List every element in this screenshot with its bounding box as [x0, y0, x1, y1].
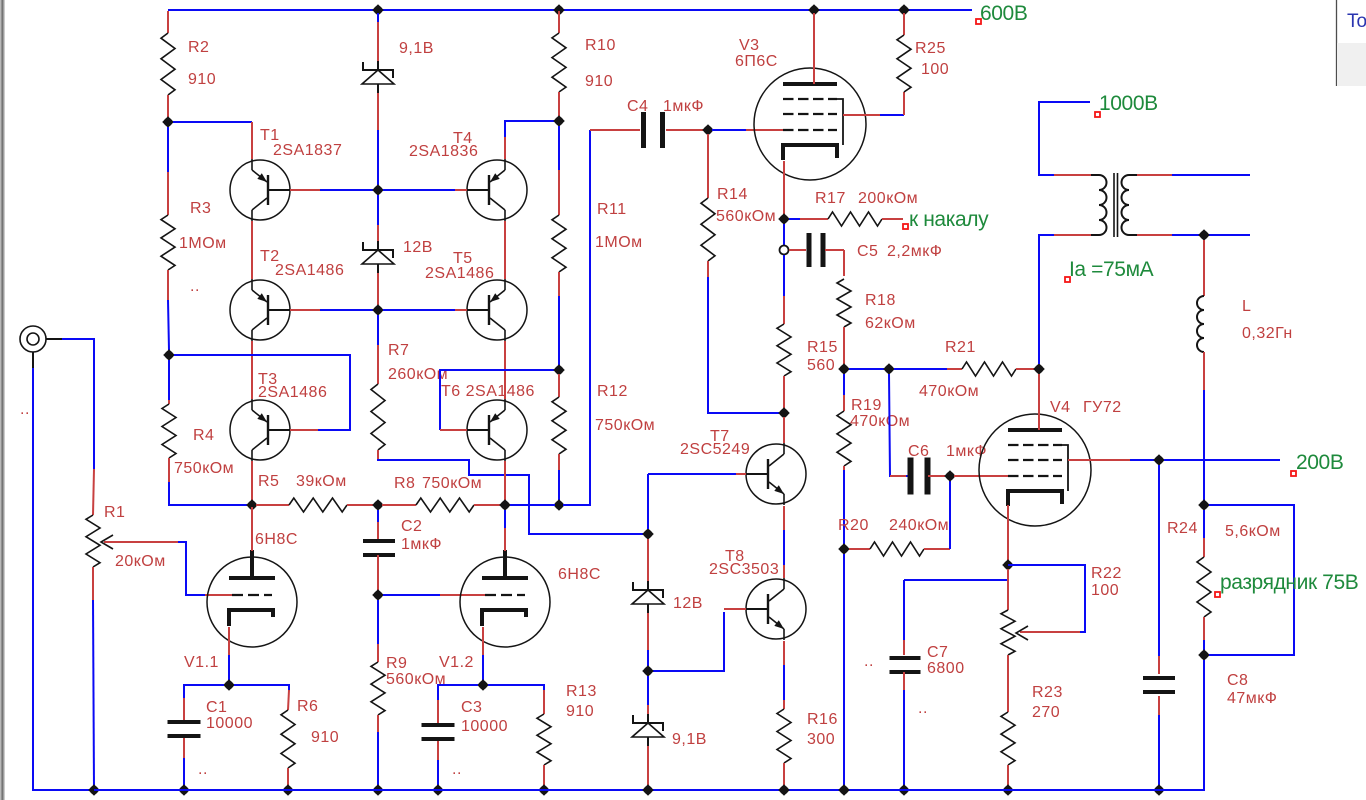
wire R8 left lead [382, 504, 416, 506]
wire R12 top lead [558, 374, 560, 397]
svg-text:R18: R18 [865, 292, 896, 309]
wire R22 top lead [1007, 569, 1009, 610]
wire R10 top lead [558, 11, 560, 33]
wire zener3 blue [647, 650, 649, 666]
resistor R6 [281, 710, 295, 768]
svg-text:10000: 10000 [461, 718, 508, 735]
wire R25 bottom lead [903, 92, 905, 115]
svg-text:1мкФ: 1мкФ [401, 536, 442, 553]
wire V1.2 cathode blue [482, 655, 484, 681]
svg-text:750кОм: 750кОм [422, 475, 482, 492]
wire zener4 top red [647, 705, 649, 714]
wire R1 to ground bus [93, 600, 94, 790]
capacitor C4 [641, 112, 646, 148]
wire node to R7 [377, 315, 379, 345]
wire C7 bottom red [903, 672, 905, 690]
svg-text:R5: R5 [258, 473, 279, 490]
label zener 9.1V [399, 40, 434, 57]
capacitor C5 [807, 233, 812, 267]
wire R4 to R5 row [169, 482, 247, 505]
wire R23 bottom lead [1007, 765, 1009, 786]
svg-text:R3: R3 [190, 200, 211, 217]
label R22 value [1091, 565, 1122, 599]
label zener4 9.1V [672, 731, 707, 748]
wire R12 bottom lead blue [558, 470, 560, 501]
resistor R9 [371, 662, 385, 715]
wiper arrow R22 [1020, 631, 1080, 633]
label C5 value [857, 243, 942, 260]
resistor R7 [371, 384, 385, 450]
svg-text:300: 300 [807, 731, 835, 748]
wire C5 to R18 [843, 250, 845, 276]
junction L/R24/spark gap [1198, 499, 1210, 511]
wire zener3 top lead [647, 539, 649, 581]
wire R18 node to C6 node [849, 368, 884, 370]
junction V3 cathode/R17/C5 [778, 213, 790, 225]
wire V4 grid red [954, 475, 1008, 477]
label R24 value [1167, 520, 1281, 540]
wire C3 bottom lead [437, 741, 439, 760]
wire secondary top out [1172, 174, 1250, 176]
svg-text:..: .. [190, 278, 200, 295]
label T7 type [680, 428, 750, 458]
node k nakalu port [903, 208, 989, 231]
wire R3 top lead [167, 127, 169, 172]
wire L top lead [1203, 240, 1205, 296]
wire jack ground [33, 368, 90, 790]
wire V1.2 cathode red [482, 627, 484, 655]
wire R14 to R15 node [708, 277, 779, 413]
top-right panel divider [1336, 0, 1338, 86]
wire R4 top lead [168, 360, 170, 400]
wire C1 bottom lead [183, 738, 185, 758]
wire node to zener2 blue [377, 195, 379, 225]
junction R1/ground bus [88, 784, 100, 796]
svg-text:..: .. [452, 761, 462, 778]
wire R17 left lead [800, 218, 828, 220]
label R20 value [838, 517, 949, 534]
wire T5 collector to T6 [504, 341, 506, 399]
label R25 value [915, 40, 949, 78]
wire R7 to zener3 node [378, 459, 643, 534]
svg-text:R14: R14 [717, 186, 748, 203]
wire cathode row left V1.2 [438, 685, 478, 700]
junction R18/R19/R21 [838, 363, 850, 375]
svg-text:C8: C8 [1227, 672, 1248, 689]
wire R8 right lead [474, 504, 502, 506]
zener diode 9.1V top [363, 62, 393, 78]
wire R3 bottom lead [167, 270, 169, 300]
label T8 type [709, 548, 779, 578]
junction R3/R4/T3-base loop [163, 349, 175, 361]
label R15 value [807, 339, 838, 374]
svg-text:910: 910 [188, 71, 216, 88]
tube V1.1 6N8S [207, 557, 297, 647]
wire R25 top lead [903, 13, 905, 35]
label C6 value [908, 443, 987, 460]
wire T3 collector to R5 node [251, 461, 253, 503]
junction zener1/T1/T4 bases [372, 184, 384, 196]
label C1 value [206, 699, 253, 732]
resistor R10 [552, 33, 566, 92]
svg-text:ГУ72: ГУ72 [1083, 399, 1122, 416]
wire row to C4 column [563, 130, 590, 505]
junction R6/ground bus [282, 784, 294, 796]
transformer TR1 primary [1091, 175, 1107, 235]
resistor R2 [161, 33, 175, 95]
wire R2 bottom lead [167, 95, 169, 122]
capacitor C1 [168, 720, 201, 724]
wire C2 top blue [377, 510, 379, 522]
tube V3 6P6S [754, 68, 866, 180]
svg-text:2SA1486: 2SA1486 [258, 384, 327, 401]
node Ia=75mA note [1065, 258, 1154, 282]
label R7 value [388, 342, 448, 383]
wire T1 emitter lead [251, 122, 253, 159]
wire R24 bottom blue [1203, 640, 1205, 650]
label R3 value [179, 200, 227, 252]
wire zener1 top lead [377, 22, 379, 61]
label R14 value [716, 186, 776, 225]
svg-text:Ia =75мА: Ia =75мА [1069, 258, 1154, 281]
wire R20 left lead [849, 548, 870, 550]
wire primary bottom red [1054, 234, 1091, 236]
wire T2 base lead [290, 309, 320, 311]
wire T4 base lead [383, 189, 455, 191]
wire primary bottom blue [1039, 235, 1054, 364]
svg-text:12В: 12В [403, 239, 433, 256]
resistor R15 [777, 324, 791, 376]
wire R3 top lead red [167, 172, 169, 215]
svg-text:2SC3503: 2SC3503 [709, 561, 779, 578]
wire R5 right lead [347, 504, 374, 506]
wire V4 cathode lead [1007, 505, 1009, 561]
junction R9/ground bus [372, 784, 384, 796]
wire T5 base lead [383, 309, 455, 311]
wire V4 screen red [1068, 459, 1130, 461]
wire R24 top blue [1203, 510, 1205, 538]
wire T8 base red [724, 608, 746, 610]
wire T4 base red [455, 189, 467, 191]
wire jack bottom stub [32, 352, 34, 368]
junction R5/R8/C2 [372, 499, 384, 511]
svg-text:2SC5249: 2SC5249 [680, 441, 750, 458]
wire primary top red [1054, 174, 1091, 176]
wire V1.1 cathode blue [228, 655, 230, 681]
svg-text:To: To [1347, 11, 1366, 32]
top-right panel grey block [1337, 43, 1366, 86]
wire zener1 bottom lead red [377, 93, 379, 130]
resistor R24 [1197, 557, 1211, 617]
label C8 value [1227, 672, 1277, 707]
junction C7/ground bus [898, 784, 910, 796]
svg-text:R7: R7 [388, 342, 409, 359]
wire jack right stub [46, 338, 62, 340]
svg-text:V3: V3 [739, 37, 760, 54]
svg-text:1МОм: 1МОм [179, 235, 227, 252]
wire R12 bottom lead red [558, 454, 560, 470]
wire V3 anode lead [813, 13, 815, 84]
resistor R23 [1001, 712, 1015, 765]
svg-text:2SA1837: 2SA1837 [273, 142, 342, 159]
label C3 value [461, 699, 508, 735]
wire V1.2 anode red [504, 528, 506, 551]
wire T3 base lead [290, 429, 318, 431]
svg-text:Т6 2SA1486: Т6 2SA1486 [441, 383, 535, 400]
svg-text:V1.2: V1.2 [439, 654, 474, 671]
wire C1 to ground [183, 758, 185, 786]
wire V4 anode lead [1038, 374, 1040, 430]
svg-text:910: 910 [566, 703, 594, 720]
label R11 value [595, 201, 643, 251]
wire T4 collector to T5 [504, 221, 506, 279]
tube V4 GU72 [979, 414, 1091, 526]
junction top bus / zener chain [372, 4, 384, 16]
label R5 value [258, 473, 347, 490]
junction R10/T4 emitter/R11 [553, 115, 565, 127]
svg-text:R22: R22 [1091, 565, 1122, 582]
node 1000V port [1095, 92, 1158, 117]
wire ring to R15 blue [783, 255, 785, 296]
wire C6 column [889, 374, 908, 476]
resistor R21 [962, 362, 1016, 376]
wire jack to R1 column [62, 339, 94, 469]
capacitor C8 [1143, 676, 1175, 680]
wire R22 to R23 [1007, 655, 1009, 712]
wire T1 base lead [290, 189, 320, 191]
svg-text:V4: V4 [1050, 399, 1071, 416]
wire R20 right lead [924, 548, 950, 550]
svg-text:910: 910 [311, 729, 339, 746]
wire R1 bottom lead [92, 567, 94, 600]
wire zener1 to T-row node [377, 130, 379, 185]
wire C1 top lead [183, 698, 185, 720]
label V3 type [735, 37, 778, 70]
wire R6 top lead [288, 690, 289, 710]
mark dots left of C7 [864, 653, 874, 670]
svg-text:9,1В: 9,1В [399, 40, 434, 57]
svg-text:C3: C3 [461, 699, 482, 716]
wire R11 bottom lead red [558, 272, 560, 296]
wire R19 bottom lead [843, 466, 845, 470]
svg-text:200кОм: 200кОм [858, 190, 918, 207]
junction V1.2 cathode/C3/R13 [477, 679, 489, 691]
wire zener2 bottom lead [377, 273, 379, 305]
wire R15 bottom lead [783, 376, 785, 409]
resistor R1 pot [86, 515, 100, 567]
wire V3 screen red [843, 114, 880, 116]
label T5 type [425, 250, 494, 282]
wire C8 bottom red [1158, 696, 1160, 715]
label L value [1242, 298, 1293, 342]
wire V1.1 anode lead [251, 507, 253, 551]
junction R11/R12/T6 base [553, 364, 565, 376]
wire R1 top lead [93, 469, 94, 515]
wire R16 bottom lead [783, 763, 785, 786]
svg-text:560: 560 [807, 357, 835, 374]
junction zener3/zener4/T8 base [642, 665, 654, 677]
transistor T4 [467, 160, 527, 220]
wire C3 to ground [437, 760, 439, 786]
junction V4 cathode/R22 [1002, 559, 1014, 571]
wire T6 collector down [504, 461, 506, 503]
junction C8/ground bus [1153, 784, 1165, 796]
junction top bus / R10 [553, 4, 565, 16]
svg-text:910: 910 [585, 73, 613, 90]
mark dots below C3 [452, 761, 462, 778]
label R2 value [188, 39, 216, 88]
wire T6 base loop blue [440, 370, 554, 430]
junction R5/V1.1 anode [246, 499, 258, 511]
svg-text:R10: R10 [585, 37, 616, 54]
junction R21/V4 anode/transformer [1033, 363, 1045, 375]
wire R9 to ground [377, 732, 379, 786]
wire R20 to C6 node [949, 481, 951, 549]
mark dots near jack [20, 401, 30, 418]
label V1.2 type [439, 566, 601, 671]
wire C8 bottom blue [1158, 715, 1160, 786]
label R6 value [297, 698, 339, 746]
label C4 value [627, 98, 704, 115]
label T1 type [260, 127, 342, 159]
wire V3 screen to R25 [880, 114, 904, 116]
svg-text:R21: R21 [945, 339, 976, 356]
svg-text:6800: 6800 [927, 660, 965, 677]
svg-text:9,1В: 9,1В [672, 731, 707, 748]
wire 200V row [1164, 459, 1280, 461]
svg-text:470кОм: 470кОм [850, 413, 910, 430]
wire zener1 top stub [377, 13, 379, 22]
svg-text:R20: R20 [838, 517, 869, 534]
svg-text:R19: R19 [851, 397, 882, 414]
wire R24 bottom red [1203, 617, 1205, 640]
wire R2 top lead [167, 11, 169, 33]
svg-text:R12: R12 [597, 383, 628, 400]
transistor T6 [467, 400, 527, 460]
svg-text:240кОм: 240кОм [889, 517, 949, 534]
resistor R17 [828, 212, 882, 226]
svg-text:..: .. [918, 700, 928, 717]
label R12 value [595, 383, 655, 434]
wire T6 base red [440, 429, 467, 431]
svg-text:R23: R23 [1032, 684, 1063, 701]
junction C6 column top [883, 363, 895, 375]
wire V3 cathode lead [783, 161, 785, 215]
svg-text:270: 270 [1032, 704, 1060, 721]
wire R7 top lead [377, 345, 379, 384]
label zener 12V [403, 239, 433, 256]
label T6 type [441, 383, 535, 400]
wire zener2 top lead [377, 225, 379, 241]
label zener3 12V [673, 595, 703, 612]
label R17 value [815, 190, 918, 207]
wire R9 top blue [377, 600, 379, 644]
resistor R5 [289, 498, 347, 512]
inductor L [1197, 296, 1204, 352]
wire R20 node to ground bus [843, 554, 845, 790]
capacitor C6 [908, 458, 914, 495]
wire R19 top lead blue [843, 374, 845, 395]
resistor R20 [870, 542, 924, 556]
wire R21 right lead [1016, 368, 1035, 370]
junction V1.1 cathode/C1/R6 [223, 679, 235, 691]
wire R1 wiper blue [178, 542, 205, 595]
wire R11 bottom lead blue [558, 296, 560, 366]
wire C2 top red [377, 522, 379, 541]
resistor R3 [161, 215, 175, 270]
wire C6 right lead [928, 475, 945, 477]
wire R9 top red [377, 644, 379, 662]
wire R11 top lead blue [558, 126, 560, 170]
wire T7 collector lead [783, 417, 785, 443]
wire C6 left red [890, 475, 906, 477]
label V1.1 type [184, 531, 298, 671]
wire to R17 blue [789, 218, 800, 220]
wire R7 bottom lead [377, 450, 379, 459]
svg-text:6Н8С: 6Н8С [255, 531, 298, 548]
junction R12/V1.2 anode row [553, 499, 565, 511]
wire R21 left lead [947, 368, 962, 370]
wire C3 top lead [437, 700, 439, 723]
wire R13 bottom lead [543, 765, 545, 786]
wire T8 collector lead [783, 565, 785, 578]
transistor T2 [230, 280, 290, 340]
svg-text:C2: C2 [401, 518, 422, 535]
wire R14 top lead [707, 134, 709, 198]
svg-text:560кОм: 560кОм [716, 208, 776, 225]
wire C7 top red [903, 640, 905, 655]
node 600V port [976, 2, 1027, 25]
resistor R13 [537, 714, 551, 765]
svg-text:1МОм: 1МОм [595, 234, 643, 251]
svg-text:R15: R15 [807, 339, 838, 356]
wire C4 left lead [590, 129, 640, 131]
wire R1 wiper to grid [205, 594, 232, 596]
svg-text:C1: C1 [206, 699, 227, 716]
wire R24 node to ground corner [1164, 660, 1204, 790]
wire cathode to C7 row [904, 579, 1008, 581]
wire V1.2 anode row [510, 504, 555, 506]
junction secondary/L [1198, 229, 1210, 241]
svg-text:47мкФ: 47мкФ [1227, 690, 1277, 707]
svg-text:100: 100 [921, 61, 949, 78]
junction R19/R20 [838, 543, 850, 555]
wire ground bus [94, 789, 1204, 791]
wire node up to T7 base [647, 474, 649, 529]
resistor R16 [777, 709, 791, 763]
svg-text:12В: 12В [673, 595, 703, 612]
wire 600V top bus [168, 9, 972, 11]
wire R14 bottom lead [707, 261, 709, 277]
svg-text:..: .. [864, 653, 874, 670]
svg-text:39кОм: 39кОм [296, 473, 347, 490]
wire R22 wiper loop [1008, 565, 1085, 632]
svg-text:C7: C7 [927, 644, 948, 661]
wire T8 base loop [653, 612, 724, 671]
wire R18 bottom lead [843, 327, 845, 364]
node ring C5 tap [780, 246, 789, 255]
label R13 value [566, 683, 597, 720]
svg-text:R4: R4 [193, 427, 214, 444]
svg-text:R24: R24 [1167, 520, 1198, 537]
label R23 value [1032, 684, 1063, 721]
wire L bottom blue [1203, 390, 1205, 501]
wire to R21 blue [894, 368, 947, 370]
wire T4 emitter up [504, 137, 506, 159]
junction zener2/T2/T5 bases [372, 304, 384, 316]
svg-text:2SA1486: 2SA1486 [275, 262, 344, 279]
svg-text:R16: R16 [807, 711, 838, 728]
